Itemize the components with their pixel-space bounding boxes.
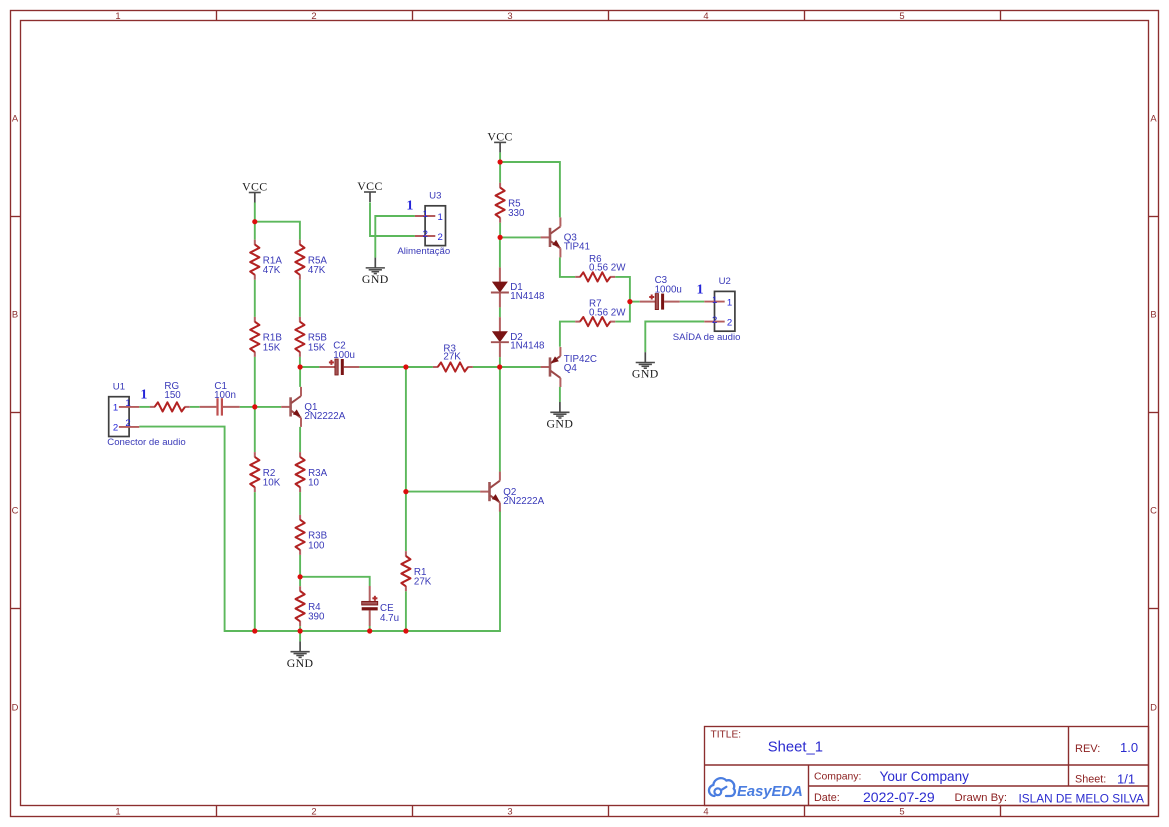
diode D1 xyxy=(491,267,545,307)
ground Q4 xyxy=(547,402,574,430)
wire CE to rail xyxy=(369,626,371,631)
power flag VCC main xyxy=(487,129,512,152)
drawn-by label xyxy=(955,792,1008,804)
svg-text:1N4148: 1N4148 xyxy=(510,341,545,352)
svg-text:TIP41: TIP41 xyxy=(564,242,590,253)
wire C3 to U2.1 xyxy=(680,301,705,303)
svg-text:150: 150 xyxy=(164,390,181,401)
wire R1A-R1B xyxy=(254,280,256,317)
title block TITLE label xyxy=(711,730,742,741)
wire D2 to node xyxy=(499,357,501,367)
connector U2 xyxy=(673,276,741,343)
wire R1 column mid xyxy=(405,492,407,552)
node output node xyxy=(627,299,632,304)
svg-text:REV:: REV: xyxy=(1075,743,1100,755)
resistor R1B xyxy=(250,317,282,357)
node D2 node xyxy=(497,364,502,369)
svg-text:0.56 2W: 0.56 2W xyxy=(589,263,626,274)
svg-text:A: A xyxy=(12,112,19,123)
wire R7 to Q4 emitter xyxy=(560,322,575,347)
node rail-R4-GND xyxy=(298,628,303,633)
wire U2.2 to gnd xyxy=(645,322,704,353)
svg-text:Drawn By:: Drawn By: xyxy=(955,792,1008,804)
wire R2 bottom xyxy=(254,492,256,631)
wire Q4 collector to gnd xyxy=(559,387,561,402)
svg-text:3: 3 xyxy=(507,806,512,817)
svg-text:4: 4 xyxy=(703,10,708,21)
svg-text:1: 1 xyxy=(697,282,704,297)
wire rail to GND tap xyxy=(299,631,301,641)
rev label xyxy=(1075,743,1100,755)
svg-text:2N2222A: 2N2222A xyxy=(503,496,544,507)
date value xyxy=(863,789,935,805)
diode D2 xyxy=(491,317,545,357)
svg-text:1000u: 1000u xyxy=(655,284,682,295)
transistor Q1 xyxy=(281,387,346,427)
wire Q2 base net xyxy=(406,491,480,493)
svg-text:B: B xyxy=(1150,308,1156,319)
capacitor CE xyxy=(362,586,399,626)
capacitor C2 xyxy=(319,341,359,375)
connector U3 xyxy=(397,191,450,258)
node R3B-R4 node xyxy=(298,574,303,579)
svg-text:GND: GND xyxy=(287,656,314,670)
svg-text:1: 1 xyxy=(140,387,147,402)
ground U2 xyxy=(632,352,659,380)
wire Q2 collector up xyxy=(499,367,501,472)
wire Q3 emitter to R6 xyxy=(560,257,575,277)
node vcc-left xyxy=(252,219,257,224)
wire vcc node to R5 xyxy=(499,162,501,183)
svg-text:GND: GND xyxy=(632,367,659,381)
svg-text:GND: GND xyxy=(547,416,574,430)
resistor R3A xyxy=(296,452,328,492)
resistor R5A xyxy=(295,240,327,280)
svg-text:GND: GND xyxy=(362,272,389,286)
svg-text:VCC: VCC xyxy=(357,179,382,193)
wire out node to R7 xyxy=(615,302,630,322)
wire node to R4 xyxy=(299,577,301,586)
node Q3 base node xyxy=(498,235,503,240)
svg-text:VCC: VCC xyxy=(242,179,267,193)
wire U3.1 to gnd xyxy=(375,216,415,258)
node Q2 base node xyxy=(403,489,408,494)
net label 1 at U3 xyxy=(406,199,413,214)
resistor R3 xyxy=(433,343,473,371)
wire R5B-collector node xyxy=(299,357,301,367)
resistor R7 xyxy=(575,299,626,327)
resistor R1 xyxy=(401,551,431,591)
svg-text:1.0: 1.0 xyxy=(1120,740,1138,755)
svg-text:VCC: VCC xyxy=(487,129,512,143)
wire node to D1 xyxy=(499,237,501,267)
svg-text:5: 5 xyxy=(899,10,904,21)
resistor R2 xyxy=(250,452,280,492)
wire CE branch horiz xyxy=(300,577,370,586)
company value xyxy=(880,769,970,784)
wire R6 to out node xyxy=(615,277,630,302)
svg-text:2: 2 xyxy=(438,232,443,243)
title block grid xyxy=(705,727,1149,806)
svg-text:Sheet:: Sheet: xyxy=(1075,774,1106,786)
wire D2 node to Q4 base xyxy=(500,366,541,368)
wire R4 to rail xyxy=(299,626,301,631)
svg-text:1: 1 xyxy=(423,209,428,220)
svg-text:D: D xyxy=(12,701,19,712)
svg-text:47K: 47K xyxy=(308,265,326,276)
wire C2 node link xyxy=(300,366,319,368)
svg-text:1: 1 xyxy=(125,398,130,409)
svg-text:15K: 15K xyxy=(308,342,326,353)
svg-text:2022-07-29: 2022-07-29 xyxy=(863,789,935,805)
net label 1 at U1 xyxy=(140,387,147,402)
wire R3A-R3B xyxy=(299,492,301,515)
wire Q1 emitter to R3A xyxy=(299,427,301,452)
wire bottom rail xyxy=(255,511,500,631)
transistor Q4 xyxy=(541,347,597,387)
svg-text:C: C xyxy=(1150,504,1157,515)
svg-text:1/1: 1/1 xyxy=(1117,772,1135,787)
svg-text:100n: 100n xyxy=(214,390,236,401)
wire VCC1 down xyxy=(254,203,256,222)
svg-text:1: 1 xyxy=(438,212,443,223)
svg-text:10: 10 xyxy=(308,478,319,489)
wire R2 top xyxy=(254,407,256,452)
transistor Q3 xyxy=(541,217,590,257)
capacitor C3 xyxy=(640,275,682,309)
wire RG-C1 xyxy=(190,406,200,408)
node vcc-main xyxy=(498,159,503,164)
wire R1col node-R3 xyxy=(406,366,433,368)
wire D1-D2 xyxy=(499,307,501,317)
svg-text:B: B xyxy=(12,308,18,319)
svg-text:Alimentação: Alimentação xyxy=(397,246,450,257)
svg-text:U2: U2 xyxy=(719,276,731,287)
svg-text:1: 1 xyxy=(727,297,732,308)
svg-text:Date:: Date: xyxy=(814,792,840,804)
wire vcc1 node to R1A xyxy=(254,222,256,240)
power flag VCC U3 xyxy=(357,179,382,202)
svg-text:Q4: Q4 xyxy=(564,363,578,374)
resistor R3B xyxy=(296,515,328,555)
wire R1 to rail xyxy=(405,591,407,631)
wire vcc node to Q3 col xyxy=(500,162,560,217)
wire collector node down to Q1 xyxy=(299,367,301,387)
svg-text:Conector de audio: Conector de audio xyxy=(107,437,185,448)
svg-text:330: 330 xyxy=(508,208,525,219)
svg-text:C: C xyxy=(12,504,19,515)
wire vcc1 node to R5A xyxy=(255,222,300,240)
wire VCC3 down xyxy=(499,153,501,163)
svg-text:27K: 27K xyxy=(443,351,461,362)
node rail-R2 xyxy=(252,628,257,633)
svg-text:U3: U3 xyxy=(429,191,441,202)
wire R1 column top xyxy=(405,367,407,492)
node Q1 base node xyxy=(252,404,257,409)
resistor R5B xyxy=(295,317,327,357)
wire C1-Q1 base xyxy=(240,406,282,408)
wire R5A-R5B xyxy=(299,280,301,317)
resistor RG xyxy=(150,381,190,412)
resistor R4 xyxy=(296,586,325,626)
wire R3-D2 node xyxy=(473,366,500,368)
resistor R5 xyxy=(496,183,525,223)
connector U1 xyxy=(107,381,185,448)
node R1 column top node xyxy=(403,364,408,369)
ground U3 xyxy=(362,258,389,286)
svg-text:ISLAN DE MELO SILVA: ISLAN DE MELO SILVA xyxy=(1019,792,1145,806)
resistor R1A xyxy=(250,240,282,280)
svg-text:100u: 100u xyxy=(333,350,355,361)
rev value xyxy=(1120,740,1138,755)
capacitor C1 xyxy=(200,381,240,416)
svg-text:0.56 2W: 0.56 2W xyxy=(589,307,626,318)
svg-text:1: 1 xyxy=(115,806,120,817)
node Q1 collector node xyxy=(298,364,303,369)
transistor Q2 xyxy=(480,472,545,512)
svg-text:47K: 47K xyxy=(263,265,281,276)
wire R5 to Q3 base node xyxy=(499,223,501,238)
svg-text:Sheet_1: Sheet_1 xyxy=(768,740,823,756)
wire C2-R1col node xyxy=(359,366,406,368)
svg-text:Company:: Company: xyxy=(814,772,861,783)
sheet label xyxy=(1075,774,1106,786)
wire VCC2 down to U3.2 xyxy=(370,202,415,236)
svg-text:390: 390 xyxy=(308,612,325,623)
svg-text:D: D xyxy=(1150,701,1157,712)
wire out node to C3 xyxy=(630,301,640,303)
svg-text:4.7u: 4.7u xyxy=(380,613,399,624)
node rail-R1 xyxy=(403,628,408,633)
company label xyxy=(814,772,861,783)
svg-text:TITLE:: TITLE: xyxy=(711,730,742,741)
svg-text:5: 5 xyxy=(899,806,904,817)
svg-text:1: 1 xyxy=(113,403,118,414)
wire U1.2 down to rail xyxy=(139,427,255,631)
svg-text:15K: 15K xyxy=(263,342,281,353)
svg-text:27K: 27K xyxy=(414,577,432,588)
net label 1 at U2 xyxy=(697,282,704,297)
date label xyxy=(814,792,840,804)
svg-text:EasyEDA: EasyEDA xyxy=(737,784,803,800)
svg-text:2: 2 xyxy=(727,317,732,328)
svg-text:3: 3 xyxy=(507,10,512,21)
svg-text:1: 1 xyxy=(712,295,717,306)
svg-text:100: 100 xyxy=(308,540,325,551)
svg-text:2: 2 xyxy=(423,229,428,240)
ground rail xyxy=(287,641,314,669)
svg-text:2: 2 xyxy=(311,10,316,21)
resistor R6 xyxy=(575,254,626,282)
wire R3B-R4 node xyxy=(299,555,301,577)
drawn-by value xyxy=(1019,792,1145,806)
node rail-CE xyxy=(367,628,372,633)
title Sheet_1 xyxy=(768,740,823,756)
svg-text:1N4148: 1N4148 xyxy=(510,291,545,302)
EasyEDA logo xyxy=(709,778,803,800)
svg-text:U1: U1 xyxy=(113,381,125,392)
svg-text:10K: 10K xyxy=(263,478,281,489)
svg-text:2: 2 xyxy=(712,315,717,326)
svg-text:2: 2 xyxy=(125,418,130,429)
power flag VCC left xyxy=(242,179,267,202)
wire Q3 base net xyxy=(500,236,540,238)
svg-text:2: 2 xyxy=(113,423,118,434)
sheet value xyxy=(1117,772,1135,787)
svg-text:2N2222A: 2N2222A xyxy=(304,411,345,422)
svg-text:SAÍDA de audio: SAÍDA de audio xyxy=(673,332,741,343)
wire R1B-Q1 base node xyxy=(254,357,256,407)
svg-text:1: 1 xyxy=(115,10,120,21)
svg-text:4: 4 xyxy=(703,806,708,817)
svg-text:Your Company: Your Company xyxy=(880,769,970,784)
svg-text:2: 2 xyxy=(311,806,316,817)
wire input net U1.1-RG xyxy=(139,406,150,408)
svg-text:A: A xyxy=(1150,112,1157,123)
svg-text:1: 1 xyxy=(406,199,413,214)
